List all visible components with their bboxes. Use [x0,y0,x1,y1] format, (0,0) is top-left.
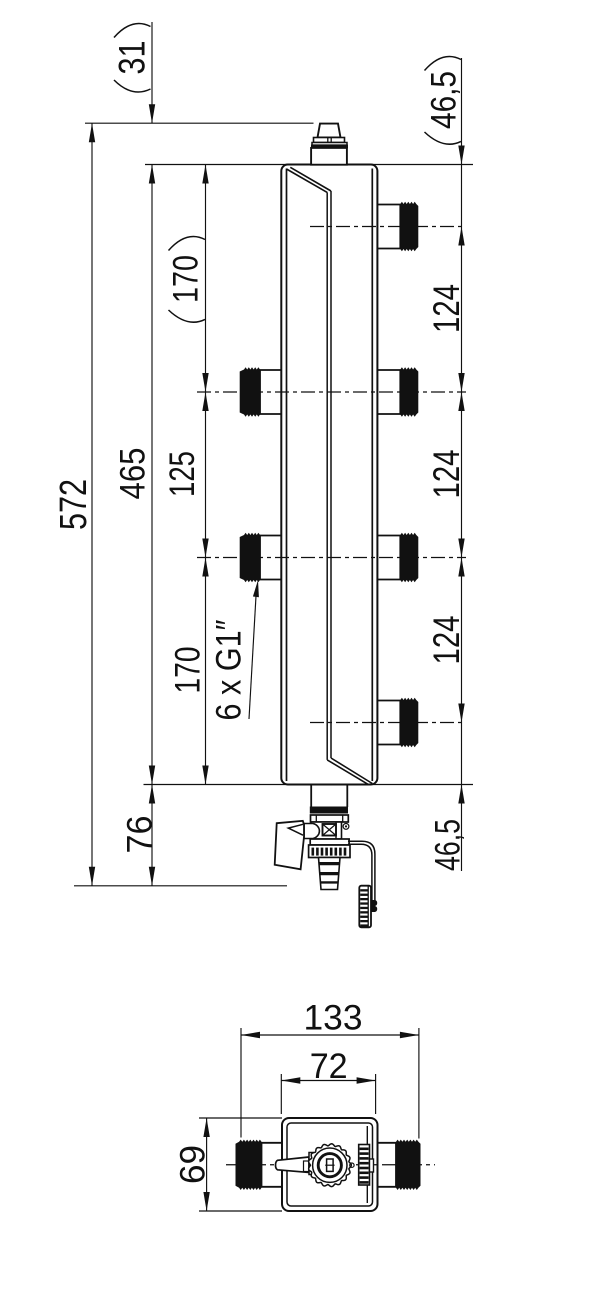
vessel left inner edge [286,169,288,782]
port R2 base [377,370,400,414]
vessel top bevel edges [287,167,332,192]
svg-text:133: 133 [304,998,363,1037]
svg-text:69: 69 [173,1145,212,1184]
port L1 base [260,370,281,414]
svg-text:124: 124 [426,284,467,333]
valve screw [343,824,349,830]
port L2 thread [240,533,260,582]
vessel body outline [281,165,377,785]
right dim line (46,5)/124/124/124/46,5 [461,58,463,871]
port L1 thread [240,367,260,416]
dim 72 [281,1080,375,1082]
top reference line (vent top) [85,122,314,124]
drain lower plate [310,839,349,845]
vessel front bevel vertical edges [326,192,328,760]
svg-text:46,5: 46,5 [428,819,467,871]
svg-text:76: 76 [120,816,159,854]
drain valve body [311,822,342,839]
dim 69 [206,1118,208,1211]
centerline port row 4 [310,722,466,724]
cap nub [371,900,377,912]
top view cap wheel [359,1145,370,1186]
svg-text:170: 170 [168,647,207,694]
top view strap pivot [350,1163,354,1167]
drain gasket ring [310,807,348,814]
top view knob ring [318,1154,341,1177]
svg-text:125: 125 [163,451,202,497]
centerline port row 3 [197,557,466,559]
dim line 465 / 76 [151,165,153,886]
top view port left base [262,1143,283,1187]
centerline port row 2 [197,391,466,393]
air vent cap [318,124,341,138]
svg-text:46,5: 46,5 [424,71,463,129]
bottom reference line (76) [74,885,287,887]
valve hub (handle boss) [304,824,319,839]
top view body [282,1118,378,1211]
air vent body [311,148,347,165]
valve stem square [323,824,337,836]
port R4 thread [400,698,418,747]
drain knurled nut [309,845,350,858]
hose barb [319,858,341,890]
drain handle arm [275,821,304,870]
top view knob slot [327,1159,334,1171]
vessel bottom bevel edges [327,758,372,784]
top view centerline [226,1164,435,1166]
top view port right thread [396,1140,421,1190]
air vent collar rings [312,143,347,146]
svg-text:72: 72 [310,1047,348,1086]
port L2 base [260,536,281,580]
vessel right inner edge [371,169,373,782]
svg-text:572: 572 [53,479,95,530]
drain valve hex flange [311,815,349,822]
air vent hex nut [314,138,345,143]
cap strap [348,841,375,901]
svg-text:124: 124 [426,616,467,665]
centerline port row 1 [310,226,466,228]
drain cap disc [359,886,371,928]
top view knob inner circle [313,1148,347,1182]
dim 133 [241,1034,419,1036]
svg-text:170: 170 [166,255,205,303]
port R1 base [377,205,400,249]
drain neck [310,785,312,808]
dim line (31) [151,22,153,123]
svg-text:465: 465 [113,448,152,500]
leader line 6 x G1 [249,596,256,719]
top view port left thread [236,1140,262,1190]
svg-text:124: 124 [426,450,467,499]
dim line 572 [91,123,93,886]
vessel top extension line [145,164,473,166]
svg-text:6 x G1″: 6 x G1″ [209,620,248,721]
port R4 base [377,701,400,745]
port R2 thread [400,367,418,416]
top view port right base [378,1143,397,1187]
top view drain lever [275,1157,309,1173]
port R1 thread [400,202,418,251]
dim line (170)/125/170 [205,165,207,785]
port R3 base [377,536,400,580]
port R3 thread [400,533,418,582]
top view knob scalloped wheel [309,1144,352,1187]
vessel bottom extension line [144,784,474,786]
svg-text:31: 31 [112,41,153,75]
